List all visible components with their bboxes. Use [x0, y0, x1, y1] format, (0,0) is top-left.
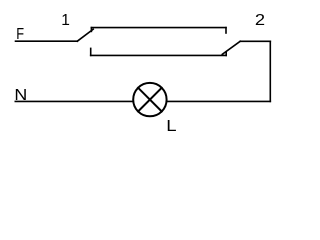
svg-text:1: 1	[61, 12, 70, 29]
switch S1 blade	[77, 29, 93, 41]
wire switch 2 pole	[240, 40, 270, 42]
contact tick S1 top throw	[90, 28, 92, 32]
wire right vertical drop	[269, 41, 271, 101]
svg-text:F: F	[16, 26, 24, 43]
wire lamp to right vertical	[167, 100, 270, 102]
contact tick S2 bottom throw	[225, 52, 227, 55]
lamp L1 circle	[133, 83, 166, 116]
lamp L1 cross stroke 1	[138, 88, 162, 112]
svg-text:2: 2	[255, 12, 265, 29]
lamp L1 cross stroke 2	[138, 88, 162, 112]
wire N line to lamp	[15, 100, 133, 102]
svg-text:N: N	[14, 87, 27, 104]
contact tick S1 bottom throw	[90, 48, 92, 55]
wire F line to switch 1 pole	[16, 40, 78, 42]
switch S2 blade	[222, 41, 240, 54]
contact tick S2 top throw	[225, 28, 227, 33]
wire bottom traveler	[91, 54, 227, 56]
wire top traveler	[91, 27, 226, 29]
svg-text:L: L	[166, 118, 177, 135]
